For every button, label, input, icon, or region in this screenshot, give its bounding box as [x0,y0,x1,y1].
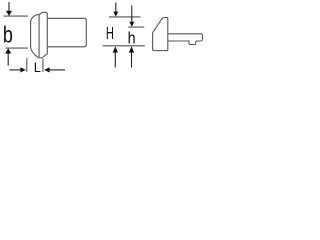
dimension b top arrowhead [6,11,12,16]
dimension L left arrowhead [20,67,25,72]
wiper head diagonal [153,18,165,34]
dimension H up arrow shaft [114,52,116,68]
dimension L line left segment [10,69,21,71]
rivet nut flange dome top [31,12,48,21]
wiper head bottom [154,50,168,52]
dimension b bottom arrow shaft [7,53,9,66]
svg-text:L: L [34,59,42,75]
dimension h bottom arrowhead [129,46,134,52]
dimension b top extension line [4,15,28,17]
dimension H bottom arrowhead [113,46,118,52]
dimension L right arrowhead [44,67,49,72]
dimension b top arrow shaft [8,2,10,12]
dimension b bottom extension line [6,47,28,49]
wiper body top [168,34,203,41]
wiper head right face [167,18,169,51]
dimension h down arrow shaft [131,6,133,23]
svg-text:H: H [106,23,114,43]
dimension b bottom arrowhead [5,48,11,53]
dimension h top arrowhead [129,22,134,27]
dimension L right extension line [42,58,44,72]
dimension H down arrow shaft [115,3,117,13]
rivet nut body [47,18,86,47]
wiper body bottom with tab [168,41,196,45]
rivet nut flange outer left face [30,22,32,47]
rivet nut flange right face [46,14,48,54]
rivet nut flange bottom [31,47,48,58]
dimension h up arrow shaft [131,52,133,68]
rivet nut flange mid rim line [38,14,40,57]
dimension h extension line [128,26,144,28]
wiper head top [164,17,168,19]
dimension L line right segment [50,69,66,71]
svg-text:h: h [128,30,136,48]
svg-text:b: b [3,22,13,48]
dimensions H h common bottom extension line [103,45,145,47]
dimension H extension line [109,16,141,18]
wiper head left face [153,34,154,51]
dimension L left extension line [26,58,28,72]
dimension H top arrowhead [113,12,118,17]
